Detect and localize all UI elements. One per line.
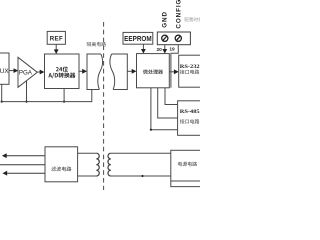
rs232 interface box [179, 55, 202, 87]
wire MCU to RS-485 line 3 [151, 88, 178, 130]
wire power input line 3 [2, 171, 45, 176]
wire PGA to ADC [37, 70, 44, 75]
eeprom U3 [123, 32, 153, 44]
transformer T1 primary winding [96, 153, 99, 176]
reference REF [47, 31, 65, 44]
svg-text:REF: REF [50, 35, 63, 42]
junction on secondary bottom wire [141, 175, 143, 177]
rs485 interface box [178, 101, 202, 136]
wire GND terminal to MCU [162, 45, 167, 54]
svg-text:GND: GND [162, 11, 169, 28]
svg-text:MUX: MUX [0, 68, 9, 75]
wire under power box [171, 181, 200, 187]
terminal block J1 [157, 32, 190, 45]
mux U1 [0, 53, 9, 84]
isolation barrier dashed line [103, 22, 105, 190]
wire MCU to RS-232 [169, 69, 178, 74]
label 24-bit [56, 66, 68, 71]
label isolation circuit [87, 42, 106, 47]
wire isolation to MCU [127, 69, 136, 74]
wire CONFIG pin 19 [171, 45, 178, 88]
wire transformer to power box top [111, 152, 171, 154]
isolation coupler right half [110, 54, 127, 90]
transformer T1 secondary winding [108, 153, 111, 176]
wire MCU to RS-485 line 2 [158, 88, 178, 118]
svg-text:19: 19 [169, 47, 175, 53]
mcu U4 microprocessor box [137, 54, 170, 88]
junction on RS-485 line 3 [150, 129, 152, 131]
junction ADC stub [63, 101, 65, 103]
label RS-485 interface circuit [180, 119, 199, 124]
svg-text:RS-232: RS-232 [180, 64, 200, 70]
svg-text:PGA: PGA [19, 70, 33, 77]
svg-text:20: 20 [157, 47, 163, 53]
svg-text:RS-485: RS-485 [180, 109, 200, 115]
ADC U2 24-bit A/D converter box [45, 54, 80, 89]
label A/D converter [48, 73, 75, 79]
svg-text:EEPROM: EEPROM [124, 34, 152, 43]
wire REF to ADC [54, 44, 59, 54]
wire MCU to RS-485 line 1 [165, 88, 178, 105]
label RS-232 interface circuit [180, 70, 199, 75]
wire MUX to PGA [9, 68, 18, 73]
junction MUX stub [1, 101, 3, 103]
wire MUX ground stub [1, 84, 3, 101]
wire ADC to isolation [79, 69, 87, 74]
wire power input line 2 [0, 164, 45, 166]
svg-text:CONFIG: CONFIG [175, 0, 182, 29]
wire ADC ground stub [63, 89, 65, 102]
junction PGA stub [25, 101, 27, 103]
terminal screw GND pin 20 [162, 35, 168, 41]
op-amp PGA [18, 57, 37, 87]
wire analog power rail [2, 90, 92, 102]
isolation coupler left half [87, 54, 102, 90]
wire EEPROM to MCU [141, 44, 146, 53]
label microprocessor [143, 69, 163, 74]
filter box [45, 147, 78, 182]
power supply box [171, 150, 202, 181]
wire filter to transformer bottom [78, 175, 97, 177]
label power circuit [178, 162, 197, 167]
terminal screw CONFIG pin 19 [175, 35, 181, 41]
note config usage [185, 17, 207, 21]
wire power input line 1 [2, 153, 45, 158]
label filter circuit [51, 167, 71, 172]
wire filter to transformer top [78, 152, 97, 154]
wire transformer to power box bottom [111, 175, 171, 177]
wire PGA ground stub [26, 81, 28, 102]
